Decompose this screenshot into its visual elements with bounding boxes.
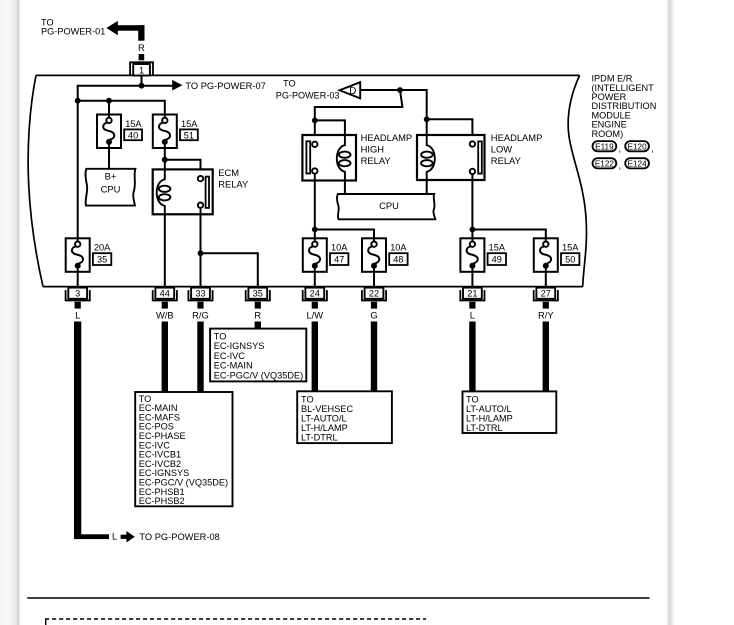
- svg-text:24: 24: [310, 289, 320, 299]
- junction node below ECM contact: [198, 250, 204, 256]
- junction node on D wire: [397, 87, 403, 93]
- pin number box 50: [561, 253, 579, 265]
- pin number box 48: [389, 253, 407, 265]
- wire fuse 49 to connector 21: [471, 272, 473, 288]
- svg-text:CPU: CPU: [101, 183, 121, 194]
- svg-text:EC-PGC/V (VQ35DE): EC-PGC/V (VQ35DE): [214, 371, 303, 381]
- svg-text:22: 22: [369, 289, 379, 299]
- wire junction to fuse 48: [315, 230, 374, 239]
- svg-text:TO: TO: [214, 331, 227, 341]
- wire low relay coil to CPU: [426, 180, 428, 194]
- connector pin 27: [534, 288, 558, 309]
- pin number box 49: [488, 253, 506, 265]
- svg-text:E119: E119: [595, 142, 614, 151]
- svg-text:LT-AUTO/L: LT-AUTO/L: [466, 404, 512, 414]
- junction node left bus corner: [75, 98, 81, 104]
- wire junction to fuse 47: [314, 230, 316, 239]
- fuse F50 15A: [534, 238, 558, 271]
- svg-text:HEADLAMP: HEADLAMP: [361, 132, 413, 143]
- svg-text:E124: E124: [628, 159, 648, 168]
- wire junction to low relay contact: [427, 119, 473, 141]
- svg-text:ECM: ECM: [218, 167, 239, 178]
- svg-text:HIGH: HIGH: [361, 144, 384, 155]
- svg-text:TO PG-POWER-07: TO PG-POWER-07: [185, 81, 265, 91]
- connector pin 33: [188, 288, 212, 309]
- IPDM E/R module outline bottom edge: [43, 286, 583, 288]
- svg-text:EC-IGNSYS: EC-IGNSYS: [214, 341, 265, 351]
- svg-text:15A: 15A: [489, 243, 506, 253]
- wire junction to low relay coil: [426, 119, 428, 135]
- connector label E122: [593, 158, 617, 168]
- wire W/B harness down: [162, 322, 168, 393]
- IPDM E/R module outline top edge: [36, 74, 580, 76]
- svg-text:LT-DTRL: LT-DTRL: [301, 432, 338, 442]
- connector pin 22: [362, 288, 386, 309]
- svg-text:,: ,: [651, 144, 654, 154]
- svg-text:L: L: [75, 309, 80, 320]
- ECM relay U? box: [153, 169, 213, 214]
- ECM relay coil: [157, 169, 171, 215]
- wire from pin 1 down to junction: [141, 76, 143, 86]
- wire from D junction to high relay: [315, 90, 403, 120]
- svg-text:TO: TO: [466, 394, 479, 404]
- svg-text:EC-MAIN: EC-MAIN: [214, 361, 253, 371]
- fuse F51 15A: [153, 115, 177, 149]
- wire ECM coil to connector 44: [164, 214, 166, 287]
- svg-text:R/G: R/G: [192, 309, 209, 320]
- wire L/W harness down: [312, 322, 318, 392]
- B+ CPU block: [85, 169, 135, 206]
- wire junction to connector 35: [201, 253, 258, 287]
- connector pin 44: [153, 288, 177, 309]
- off-page arrow TO PG-POWER-08: [121, 531, 220, 542]
- svg-text:21: 21: [467, 289, 477, 299]
- wire L harness down: [469, 322, 475, 392]
- connector label E119: [593, 141, 617, 151]
- wire junction to high relay coil: [315, 120, 345, 135]
- svg-text:B+: B+: [105, 171, 117, 182]
- headlamp high relay contact: [306, 141, 317, 180]
- svg-text:LT-AUTO/L: LT-AUTO/L: [301, 413, 347, 423]
- fuse F47 10A: [303, 238, 327, 271]
- connector pin 1: [130, 62, 153, 75]
- svg-text:EC-PHSB2: EC-PHSB2: [139, 496, 185, 506]
- junction node at pin 1 branch: [139, 83, 145, 89]
- svg-text:15A: 15A: [181, 119, 198, 129]
- svg-text:27: 27: [541, 289, 551, 299]
- wire from triangle D to low relay column: [360, 90, 427, 119]
- wire L harness to PG-POWER-08: [74, 322, 81, 540]
- svg-text:L: L: [470, 309, 475, 320]
- off-page arrow TO PG-POWER-07: [172, 80, 182, 91]
- junction node above headlamp high relay: [312, 118, 318, 124]
- svg-text:15A: 15A: [562, 243, 579, 253]
- junction node above headlamp low relay: [424, 116, 430, 122]
- svg-text:RELAY: RELAY: [491, 155, 522, 166]
- svg-text:3: 3: [75, 289, 80, 299]
- svg-text:BL-VEHSEC: BL-VEHSEC: [301, 404, 353, 414]
- svg-text:33: 33: [195, 289, 205, 299]
- svg-text:LT-H/LAMP: LT-H/LAMP: [466, 413, 513, 423]
- svg-text:E122: E122: [595, 159, 615, 168]
- junction node above fuse 47: [312, 227, 318, 233]
- svg-text:40: 40: [128, 130, 138, 140]
- headlamp high relay coil: [337, 135, 351, 181]
- svg-text:L/W: L/W: [306, 309, 323, 320]
- wire R/G harness down: [197, 322, 203, 393]
- svg-text:TO: TO: [283, 79, 296, 89]
- wire ECM contact down: [200, 214, 202, 253]
- connector pin 21: [460, 288, 484, 309]
- connector pin 35: [246, 288, 270, 309]
- svg-text:10A: 10A: [331, 243, 348, 253]
- pin number box 51: [180, 129, 198, 140]
- svg-text:50: 50: [565, 255, 575, 265]
- junction node above fuse 49: [470, 227, 476, 233]
- next section dashed border: [45, 618, 426, 620]
- wire junction to fuse 49: [471, 230, 473, 239]
- svg-text:RELAY: RELAY: [218, 179, 249, 190]
- fuse F48 10A: [362, 238, 386, 271]
- svg-text:TO PG-POWER-08: TO PG-POWER-08: [139, 532, 219, 542]
- svg-text:35: 35: [97, 255, 107, 265]
- headlamp low relay coil: [421, 135, 435, 181]
- wire R/Y harness down: [543, 322, 549, 392]
- svg-text:R: R: [138, 42, 145, 53]
- wire fuse 50 to connector 27: [545, 272, 547, 288]
- fuse F35 20A: [66, 238, 90, 271]
- connector pin 24: [303, 288, 327, 309]
- junction node above fuse 40: [106, 98, 112, 104]
- destination box nets W/B R/G (TO EC-MAIN...): [135, 392, 232, 506]
- svg-text:W/B: W/B: [156, 309, 174, 320]
- pin number box 47: [330, 253, 348, 265]
- svg-text:PG-POWER-03: PG-POWER-03: [276, 90, 340, 100]
- connector label E124: [625, 158, 649, 168]
- ECM relay contact: [198, 176, 209, 214]
- svg-text:,: ,: [619, 144, 622, 154]
- wire bus to PG-POWER-07: [78, 86, 173, 101]
- wire junction to high relay contact: [314, 120, 316, 141]
- svg-text:47: 47: [334, 255, 344, 265]
- wire stub R above connector 1: [139, 54, 145, 60]
- svg-text:PG-POWER-01: PG-POWER-01: [41, 26, 105, 36]
- destination box nets L/W G (TO BL-VEHSEC...): [297, 391, 392, 443]
- connector pin 3: [66, 288, 90, 309]
- svg-text:ROOM): ROOM): [592, 129, 624, 139]
- CPU block: [337, 194, 435, 219]
- svg-text:,: ,: [619, 161, 622, 171]
- svg-text:R: R: [254, 309, 261, 320]
- headlamp high relay box: [302, 135, 356, 181]
- fuse F40 15A: [97, 115, 121, 149]
- svg-text:15A: 15A: [125, 119, 142, 129]
- wire fuse 51 to ECM relay: [164, 148, 166, 169]
- svg-text:51: 51: [184, 130, 194, 140]
- page separator solid line: [27, 597, 649, 599]
- wire junction to fuse 50: [472, 230, 545, 239]
- wire to fuse 40: [108, 101, 110, 115]
- svg-text:LT-H/LAMP: LT-H/LAMP: [301, 423, 348, 433]
- svg-text:G: G: [370, 309, 377, 320]
- fuse F49 15A: [460, 238, 484, 271]
- connector label E120: [625, 141, 649, 151]
- svg-text:LOW: LOW: [491, 144, 513, 155]
- wire junction to ECM relay contact: [165, 160, 201, 176]
- wire high relay contact down: [314, 181, 316, 230]
- svg-text:49: 49: [492, 255, 502, 265]
- svg-text:LT-DTRL: LT-DTRL: [466, 423, 503, 433]
- svg-text:HEADLAMP: HEADLAMP: [491, 132, 543, 143]
- destination box net R (TO EC-IGNSYS...): [210, 329, 306, 382]
- wire low relay contact down: [471, 180, 473, 230]
- svg-text:CPU: CPU: [379, 200, 399, 211]
- IPDM E/R module outline left torn edge: [28, 75, 43, 286]
- IPDM E/R module outline right torn edge: [568, 75, 586, 286]
- wire fuse 35 to connector 3: [77, 272, 79, 288]
- wire G harness down: [371, 322, 377, 392]
- pin number box 40: [124, 129, 142, 140]
- svg-text:RELAY: RELAY: [361, 155, 392, 166]
- svg-text:1: 1: [139, 65, 144, 75]
- junction node above ECM relay: [162, 157, 168, 163]
- module name label IPDM E/R: [592, 74, 657, 139]
- wire R harness down: [255, 322, 261, 329]
- svg-text:E120: E120: [628, 142, 648, 151]
- off-page triangle D TO PG-POWER-03: [276, 79, 360, 101]
- svg-text:35: 35: [253, 289, 263, 299]
- svg-text:EC-IVC: EC-IVC: [214, 351, 246, 361]
- pin number box 35: [93, 253, 111, 265]
- svg-text:D: D: [349, 86, 356, 97]
- destination box nets L R/Y (TO LT-AUTO/L...): [463, 391, 557, 433]
- headlamp low relay box: [417, 135, 485, 180]
- wire from bus down to fuse 35: [77, 101, 79, 239]
- svg-text:TO: TO: [301, 394, 314, 404]
- wire fuse 48 to connector 22: [373, 272, 375, 288]
- svg-text:20A: 20A: [94, 243, 111, 253]
- svg-text:L: L: [112, 532, 117, 542]
- svg-text:R/Y: R/Y: [538, 309, 554, 320]
- wire bus feeding fuses 40 and 51: [78, 101, 165, 115]
- headlamp low relay contact: [470, 141, 482, 180]
- svg-text:44: 44: [160, 289, 170, 299]
- wire high relay coil to CPU: [344, 181, 346, 195]
- wire fuse 47 to connector 24: [314, 272, 316, 288]
- svg-text:48: 48: [393, 255, 403, 265]
- svg-text:10A: 10A: [390, 243, 407, 253]
- off-page arrow TO PG-POWER-01: [41, 17, 145, 40]
- wire junction to connector 33: [200, 253, 202, 287]
- wire fuse 40 to B+ CPU: [108, 148, 110, 169]
